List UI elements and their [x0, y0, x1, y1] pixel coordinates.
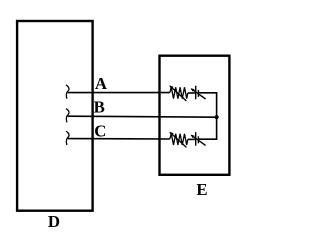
wire, branch C resistor to capacitor: [188, 138, 195, 140]
svg-text:A: A: [95, 74, 107, 93]
svg-text:E: E: [196, 180, 207, 199]
block E: [160, 56, 230, 175]
variable capacitor, branch A: [191, 86, 206, 100]
variable resistor, branch C: [169, 132, 188, 148]
svg-text:B: B: [94, 98, 105, 117]
wire A: [68, 92, 170, 94]
wire B: [68, 116, 217, 117]
wire, branch C capacitor to rail: [198, 138, 217, 140]
svg-text:D: D: [48, 212, 60, 231]
junction dot, node B: [215, 115, 219, 119]
break symbol, wire C: [66, 131, 69, 145]
wire, right rail: [216, 92, 218, 140]
variable resistor, branch A: [169, 85, 188, 101]
break symbol, wire B: [66, 109, 69, 123]
break symbol, wire A: [66, 85, 69, 99]
wire, branch A capacitor to rail: [198, 92, 217, 94]
wire, branch A resistor to capacitor: [188, 92, 195, 94]
block D: [17, 21, 93, 211]
svg-text:C: C: [94, 122, 106, 141]
wire C: [68, 138, 170, 140]
variable capacitor, branch C: [191, 132, 206, 146]
